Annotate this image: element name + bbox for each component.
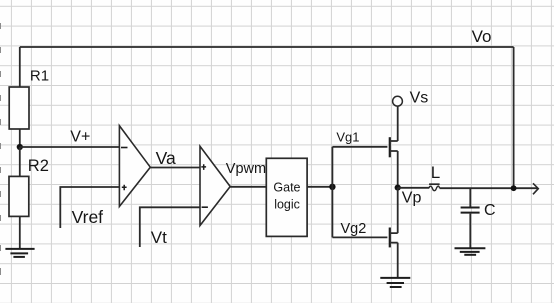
svg-text:Vp: Vp [402, 190, 422, 207]
wire: gate drive riser [331, 147, 333, 238]
svg-text:logic: logic [274, 198, 300, 212]
terminal Vs supply circle [393, 96, 403, 106]
ground under C [455, 248, 486, 255]
wire: Vref stub and lead to non-inverting input [60, 187, 119, 228]
edge artifact dashes left border [0, 23, 2, 275]
wire: R2 top lead [19, 147, 21, 176]
wire: feedback vertical drop to output node [513, 47, 515, 188]
inductor L top dash [429, 183, 440, 185]
capacitor C plates [461, 208, 480, 213]
ground under R2 [5, 249, 34, 257]
node Vp junction dot [395, 185, 401, 191]
wire: Q2 source lead to ground [391, 243, 398, 278]
wire: Q1 drain lead from Vs [391, 106, 398, 141]
U2 non-inverting input marker + [201, 164, 206, 170]
transistor Q2 gate bar [389, 228, 391, 248]
svg-text:L: L [431, 163, 440, 182]
op-amp U1 error amplifier [119, 126, 150, 207]
wire: Q2 drain lead from Vp [391, 188, 398, 234]
gate logic block [266, 158, 307, 236]
wire: Vt stub and lead to U2 inverting input [140, 207, 201, 247]
svg-text:Vt: Vt [151, 228, 167, 247]
wire: top feedback rail Vo [20, 46, 514, 48]
svg-text:Vpwm: Vpwm [226, 161, 266, 177]
resistor R1 [9, 87, 29, 129]
ground under Q2 [380, 278, 410, 287]
node gate drive junction dot [329, 184, 335, 190]
transistor Q1 gate bar [389, 137, 391, 157]
wire: R2 bottom lead [19, 216, 21, 249]
inductor L squiggle [429, 186, 440, 191]
svg-text:Vg1: Vg1 [336, 129, 359, 144]
U1 non-inverting input marker + [122, 185, 127, 191]
wire: R1 top lead [19, 47, 21, 87]
wire: Vg2 to Q2 gate [332, 236, 387, 238]
node V+ junction dot [17, 144, 23, 150]
svg-text:Vref: Vref [72, 207, 104, 227]
svg-text:Vs: Vs [410, 90, 429, 107]
wire: output from Vp to load arrow [398, 187, 538, 189]
svg-text:R1: R1 [30, 67, 49, 84]
svg-text:R2: R2 [28, 157, 49, 175]
wire: R1 bottom lead [19, 129, 21, 147]
wire: Va from U1 output to U2 input [150, 167, 200, 169]
wire: Vpwm from U2 output to gate logic [230, 186, 266, 188]
U1 inverting input marker - [121, 147, 128, 149]
svg-text:Gate: Gate [273, 181, 300, 195]
arrow head output [533, 183, 538, 194]
wire: capacitor top lead [469, 188, 471, 207]
wire: gate logic output [307, 186, 332, 188]
wire: capacitor bottom lead [469, 214, 471, 249]
node output junction dot [511, 185, 517, 191]
wire: Vg1 to Q1 gate [332, 146, 387, 148]
svg-text:Va: Va [156, 148, 176, 168]
svg-text:V+: V+ [70, 129, 90, 146]
wire: V+ to error amp inverting input [20, 146, 120, 148]
U2 inverting input marker - [202, 206, 208, 208]
resistor R2 [9, 176, 29, 216]
wire: Q1 source lead to Vp [391, 151, 398, 188]
svg-text:Vo: Vo [472, 27, 492, 46]
op-amp U2 PWM comparator [200, 146, 230, 225]
svg-text:C: C [484, 202, 496, 219]
svg-text:Vg2: Vg2 [341, 221, 367, 237]
